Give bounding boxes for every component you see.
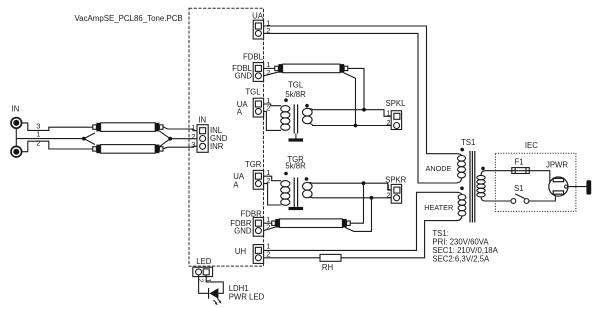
transformer TS1 primary winding [477, 175, 485, 197]
node junction FDBR/SPKR bottom [370, 196, 374, 200]
shielded cable CBL2 (left input) [93, 145, 163, 154]
svg-text:UH: UH [235, 247, 246, 256]
wire JPWR to mains plug [568, 186, 586, 188]
shielded cable CBL3 (FDBL) [275, 64, 348, 73]
svg-text:PWR LED: PWR LED [229, 293, 265, 302]
svg-text:FDBL: FDBL [243, 53, 264, 62]
TGR core ground bar [289, 207, 304, 210]
connector UH (2-pin) [253, 245, 263, 264]
wire S1 to JPWR bottom [529, 196, 556, 201]
wire ground to GND pin [170, 138, 199, 140]
shielded cable CBL4 (FDBR) [272, 219, 351, 228]
connector SPKR (2-pin) [391, 184, 401, 203]
wire UH pin2 to resistor RH [264, 257, 320, 259]
svg-text:2: 2 [197, 279, 204, 283]
transformer TS1 core [470, 151, 475, 223]
switch S1 [511, 194, 529, 204]
svg-text:JPWR: JPWR [546, 161, 568, 170]
connector UA (2-pin) [253, 20, 263, 39]
shielded cable CBL1 (left input) [93, 123, 163, 132]
svg-text:TGR: TGR [245, 160, 262, 169]
svg-text:RH: RH [322, 263, 333, 272]
connector TGL UA/A (2-pin) [253, 98, 263, 117]
wire TGL pin2 to primary bottom [264, 111, 282, 130]
connector TGR UA/A (2-pin) [253, 170, 263, 189]
wire FDBL pin1 to cable CBL3 [264, 67, 275, 69]
svg-text:1: 1 [386, 109, 390, 118]
LED LDH1 symbol [209, 288, 222, 305]
svg-text:SEC2:6,3V/2,5A: SEC2:6,3V/2,5A [432, 255, 490, 264]
wire shield diagonals at right junction [160, 131, 171, 146]
svg-text:HEATER: HEATER [424, 203, 453, 212]
svg-text:S1: S1 [514, 184, 524, 193]
wire CBL3 center to SPKL pin1 net [348, 68, 364, 109]
phase dot TGR secondary [305, 177, 309, 181]
input jack J1 (left RCA top) [11, 118, 22, 129]
node junction FDBR/SPKR top [362, 181, 366, 185]
input jack J2 (left RCA bottom) [11, 146, 22, 157]
svg-text:1: 1 [191, 123, 195, 132]
wire shield diagonals at left junction [84, 133, 95, 145]
transformer TS1 heater winding [458, 195, 466, 217]
wire TS1 primary bottom to switch S1 [481, 197, 511, 201]
IEC module dashed box [495, 153, 576, 211]
svg-text:GND: GND [234, 226, 252, 235]
wire cable CBL1 to INL pin [163, 127, 200, 131]
svg-text:SPKL: SPKL [386, 99, 407, 108]
wire TGR secondary bottom to SPKR pin2 [309, 196, 394, 199]
node junction FDBL/SPKL bottom [354, 124, 358, 128]
resistor RH [320, 254, 341, 261]
connector SPKL (2-pin) [391, 111, 401, 130]
transformer TGL primary winding [281, 106, 290, 131]
svg-text:A: A [233, 180, 239, 189]
svg-text:LED: LED [196, 257, 212, 266]
svg-text:5k/8R: 5k/8R [285, 161, 306, 170]
wire 2 from jack J2 to cable CBL2 [22, 141, 93, 152]
phase dot TGR primary [284, 172, 288, 176]
mains plug symbol [586, 180, 591, 194]
connector IN (3-pin) [197, 125, 208, 153]
connector FDBR (2-pin) [253, 217, 263, 236]
svg-text:ANODE: ANODE [426, 164, 452, 173]
transformer TGL secondary winding [303, 108, 313, 123]
svg-text:GND: GND [235, 72, 253, 81]
wire TGL pin1 to primary top [264, 104, 282, 106]
phase dot TGL secondary [305, 104, 309, 108]
svg-text:TGL: TGL [288, 80, 304, 89]
wire FDBR pin1 to cable CBL4 [264, 222, 272, 224]
svg-text:5k/8R: 5k/8R [285, 90, 306, 99]
wire FDBL pin2 to cable shield [264, 72, 280, 76]
fuse F1 [512, 168, 530, 174]
wire TS1 primary top to fuse F1 [481, 171, 550, 182]
svg-text:UA: UA [252, 11, 264, 20]
svg-text:1: 1 [36, 129, 40, 138]
svg-text:F1: F1 [514, 158, 523, 167]
svg-text:IN: IN [198, 115, 206, 124]
wire cable CBL2 to INR pin [163, 146, 200, 149]
phase dot TS1 anode [460, 148, 464, 152]
wire 3 from jack J1 to cable CBL1 [22, 123, 93, 130]
phase dot TS1 primary [481, 167, 485, 171]
wire CBL4 center to SPKR pin1 net [350, 183, 363, 223]
wire LED pin1 to LDH1 anode [206, 275, 223, 293]
svg-text:2: 2 [386, 118, 390, 127]
wire LED pin2 to LDH1 cathode [199, 275, 209, 293]
wire 1 ground to shield junction [16, 138, 84, 140]
wire TGL secondary bottom to SPKL pin2 [309, 124, 394, 126]
wire FDBR pin2 to cable shield [264, 227, 277, 231]
svg-text:TGL: TGL [245, 87, 261, 96]
wire TGL secondary top to SPKL pin1 [309, 109, 394, 117]
PCB boundary dashed box [189, 8, 264, 266]
connector LED (2-pin horizontal) [193, 267, 213, 276]
svg-text:TS1: TS1 [461, 138, 475, 147]
power inlet JPWR [549, 177, 568, 196]
transformer TGR secondary winding [303, 182, 313, 197]
node junction FDBL/SPKL top [362, 108, 366, 112]
svg-text:IEC: IEC [525, 141, 538, 150]
node ground junction left [82, 137, 86, 141]
TGL core ground stem and bar [295, 134, 297, 139]
wire UA pin2 to TS1 ANODE bottom [264, 33, 462, 183]
svg-text:2: 2 [266, 223, 270, 232]
wire TGR secondary top to SPKR pin1 [309, 183, 394, 191]
transformer TGR primary winding [281, 181, 290, 206]
svg-text:2: 2 [36, 139, 40, 148]
wire TGR pin2 to primary bottom [264, 184, 282, 205]
transformer TGR core [294, 178, 297, 207]
phase dot TS1 heater [460, 187, 464, 191]
wire RH to TS1 HEATER bottom [341, 216, 462, 258]
svg-text:A: A [237, 108, 243, 117]
svg-text:3: 3 [191, 140, 195, 149]
wire UA pin1 to TS1 ANODE top [264, 26, 462, 156]
svg-text:2: 2 [386, 190, 390, 199]
node ground junction right [168, 137, 172, 141]
wire UH pin1 to TS1 HEATER top [264, 192, 462, 250]
transformer TGL core [294, 104, 297, 133]
svg-text:VacAmpSE_PCL86_Tone.PCB: VacAmpSE_PCL86_Tone.PCB [75, 14, 183, 23]
wire ground link between jacks [15, 128, 17, 146]
transformer TS1 anode winding [458, 156, 466, 178]
wire TGR pin1 to primary top [264, 176, 282, 181]
phase dot TGL primary [284, 98, 288, 102]
connector FDBL (2-pin) [253, 63, 263, 82]
svg-text:INR: INR [210, 142, 224, 151]
svg-text:IN: IN [12, 105, 20, 114]
wire CBL3 shield to SPKL pin2 net [344, 73, 356, 126]
wire CBL4 shield to SPKR pin2 net [345, 198, 371, 232]
